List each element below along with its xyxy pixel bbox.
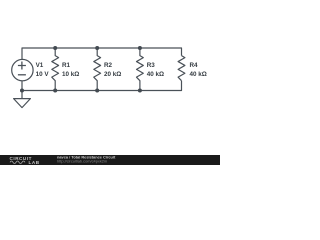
svg-text:R2: R2 — [104, 62, 113, 69]
svg-text:40 kΩ: 40 kΩ — [190, 71, 207, 78]
svg-text:40 kΩ: 40 kΩ — [147, 71, 164, 78]
svg-text:V1: V1 — [36, 62, 44, 69]
svg-text:20 kΩ: 20 kΩ — [104, 71, 121, 78]
svg-text:http://circuitlab.com/c4pxk2m: http://circuitlab.com/c4pxk2m — [57, 158, 107, 163]
svg-text:R1: R1 — [62, 62, 71, 69]
svg-text:R3: R3 — [147, 62, 156, 69]
svg-text:LAB: LAB — [29, 160, 40, 165]
svg-text:10 kΩ: 10 kΩ — [62, 71, 79, 78]
svg-text:R4: R4 — [190, 62, 199, 69]
svg-text:10 V: 10 V — [36, 71, 50, 78]
